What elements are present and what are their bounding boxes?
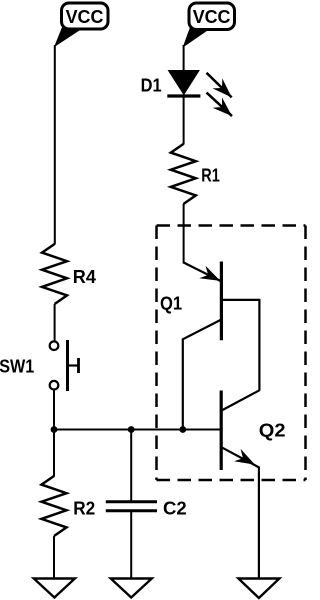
Q1 emitter wire with arrow [184,263,221,281]
capacitor C2 [106,502,157,511]
wire node to C2 [130,430,132,502]
power flag VCC (right) [184,3,235,47]
svg-text:Q1: Q1 [160,293,182,313]
wire VCC-left to R4 [54,45,56,245]
svg-text:D1: D1 [141,76,162,96]
wire C2 to ground [130,511,132,579]
wire D1 to R1 [183,96,185,145]
resistor R4 [42,244,67,304]
svg-text:Q2: Q2 [259,420,286,440]
transistor Q2 (NPN) [221,390,259,470]
resistor R2 [42,476,67,536]
svg-text:C2: C2 [163,499,187,519]
transistor Q1 (PNP) [183,262,260,430]
switch SW1 [50,340,79,391]
wire node horizontal (Q2 base net) [54,429,222,431]
tail [55,26,83,46]
wire R2 to ground [53,536,55,579]
junction dot Q1 collector [179,426,186,433]
wire R1 to Q1 emitter [183,204,185,264]
wire Q1 base to Q2 collector [258,299,260,391]
svg-text:SW1: SW1 [0,357,34,377]
resistor R1 [171,144,196,204]
power flag VCC (left) [55,3,108,46]
dashed box (latch) [157,226,306,481]
LED light arrow 1 [207,73,232,98]
ground (under Q2) [238,579,279,599]
Q1 base bar [220,262,223,341]
ground (under C2) [111,579,152,598]
Q2 base bar [220,391,223,471]
ground (under R2) [34,579,75,598]
wire R4 to SW1 [54,304,56,342]
wire SW1 to node [53,390,55,431]
wire Q2 emitter to ground [258,467,260,580]
svg-text:R1: R1 [201,166,220,186]
svg-text:VCC: VCC [66,7,104,27]
junction dot left [51,426,58,433]
svg-text:VCC: VCC [193,7,231,27]
wire VCC-right to D1 [183,45,185,71]
wire node to R2 [53,430,55,477]
LED D1 [167,71,200,97]
LED light arrow 2 [207,93,233,117]
junction dot C2 [128,426,135,433]
Q2 emitter wire with arrow [222,447,259,467]
Q1 base lead [221,299,259,301]
svg-text:R4: R4 [73,267,96,287]
svg-text:R2: R2 [73,499,95,519]
Q2 collector [222,390,260,410]
Q1 collector [183,320,222,430]
